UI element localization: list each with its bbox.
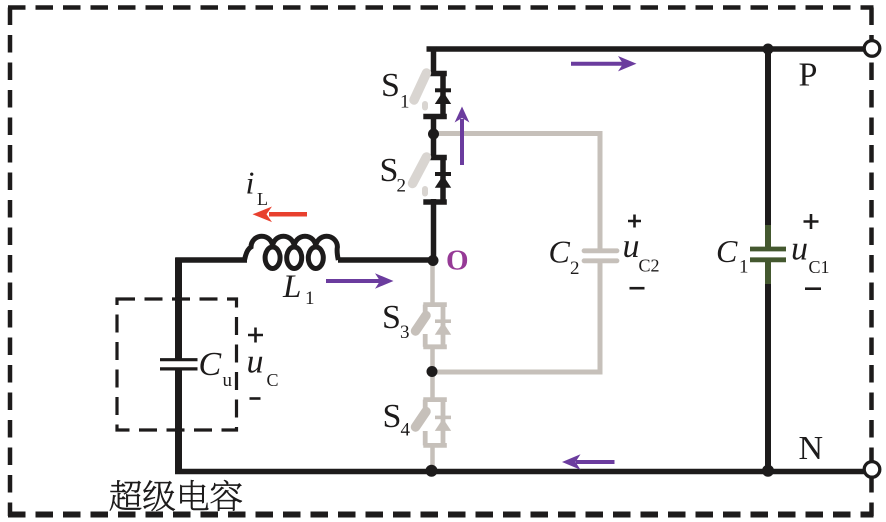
- wire: C2 bottom to S3/S4 midpoint (gray): [433, 263, 601, 373]
- wire: S1 to S2 link: [431, 114, 437, 160]
- svg-text:u: u: [247, 344, 264, 381]
- junction dot S4 to bottom rail: [426, 465, 438, 477]
- label text "容" (super-capacitor caption): [211, 480, 242, 511]
- wire: S1/S2 midpoint to C2 top (gray): [434, 134, 601, 250]
- svg-text:S: S: [382, 299, 401, 336]
- arrow under L1 (purple, pointing right): [326, 273, 394, 288]
- svg-text:u: u: [223, 370, 233, 391]
- wire: S4 down to bottom rail (gray): [430, 444, 435, 471]
- capacitor Cu plates (black): [160, 360, 198, 369]
- svg-text:u: u: [623, 228, 640, 265]
- switch S1 lever (gray): [414, 73, 427, 100]
- label text "电" (super-capacitor caption): [180, 480, 208, 510]
- capacitor C1 leads (green): [765, 225, 771, 284]
- junction dot S1/S2 midpoint: [428, 129, 439, 140]
- svg-text:4: 4: [401, 420, 411, 441]
- svg-text:P: P: [799, 57, 818, 94]
- capacitor C2 plates (gray): [584, 251, 617, 261]
- dashed box around super-capacitor Cu: [117, 299, 237, 430]
- label text "超" (super-capacitor caption): [110, 480, 142, 511]
- switch S4 lever (gray): [416, 412, 427, 428]
- svg-text:i: i: [246, 165, 255, 201]
- current arrow iL (red, pointing left): [253, 207, 308, 223]
- terminal P (open circle): [864, 41, 880, 57]
- svg-text:u: u: [791, 231, 808, 268]
- wire: bottom rail N: [175, 469, 864, 475]
- switch S2 lever (gray): [413, 157, 427, 184]
- switch S2 lower contact stub (gray): [422, 189, 428, 194]
- arrow on bottom rail (purple, pointing left): [562, 454, 615, 469]
- svg-text:C: C: [199, 346, 222, 383]
- capacitor C1 plates (green): [750, 249, 786, 260]
- label text "级" (super-capacitor caption): [143, 480, 174, 511]
- junction node O: [428, 255, 439, 266]
- wire: S3 to S4 link (gray): [430, 345, 435, 403]
- svg-text:1: 1: [739, 257, 749, 278]
- inductor L1 coil: [245, 236, 339, 268]
- wire: horizontal run from left leg to node O: [176, 257, 437, 263]
- wire: C1 branch from top rail (black): [765, 49, 771, 226]
- svg-text:1: 1: [305, 288, 315, 309]
- junction dot S3/S4 midpoint: [427, 366, 438, 377]
- switch S2 (IGBT cell, black): [423, 158, 451, 203]
- switch S3 lever (gray): [416, 316, 427, 332]
- svg-text:2: 2: [570, 258, 580, 279]
- wire: drop from top rail into S1: [431, 47, 437, 77]
- junction dot top rail / C1: [763, 44, 774, 55]
- svg-text:C: C: [267, 370, 279, 390]
- arrow on top rail (purple, pointing right): [571, 56, 637, 71]
- svg-text:N: N: [799, 430, 824, 467]
- svg-text:C2: C2: [639, 256, 660, 276]
- svg-text:L: L: [282, 269, 301, 305]
- svg-text:1: 1: [400, 92, 410, 113]
- arrow beside S2 (purple, pointing up): [455, 107, 470, 166]
- svg-text:C1: C1: [809, 257, 830, 277]
- switch S3 (IGBT cell, gray): [423, 305, 451, 347]
- terminal N (open circle): [864, 462, 880, 478]
- switch S4 (IGBT cell, gray): [423, 400, 451, 446]
- wire: top rail P: [427, 46, 865, 52]
- svg-text:S: S: [383, 398, 402, 435]
- svg-text:2: 2: [397, 176, 407, 197]
- svg-text:O: O: [446, 245, 469, 277]
- junction dot bottom rail / C1: [762, 465, 774, 477]
- svg-text:C: C: [716, 233, 738, 269]
- switch S1 lower contact stub (gray): [422, 104, 428, 108]
- svg-text:3: 3: [400, 322, 410, 343]
- wire: left vertical branch (super-capacitor leg): [175, 258, 182, 475]
- svg-text:S: S: [381, 67, 400, 104]
- wire: S2 to node O: [431, 199, 437, 262]
- svg-text:L: L: [257, 189, 268, 209]
- outer dashed boundary box: [8, 5, 874, 10]
- switch S1 (IGBT cell, black): [423, 74, 451, 117]
- wire: node O down to S3 (gray): [430, 260, 435, 307]
- wire: C1 branch to bottom rail (black): [765, 283, 771, 471]
- svg-text:C: C: [549, 234, 571, 270]
